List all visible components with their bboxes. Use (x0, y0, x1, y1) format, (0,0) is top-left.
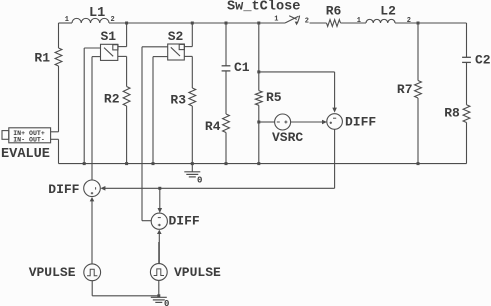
svg-text:2: 2 (305, 17, 309, 25)
svg-text:S1: S1 (100, 29, 116, 44)
svg-text:Sw_tClose: Sw_tClose (227, 0, 300, 15)
svg-text:R3: R3 (170, 92, 186, 107)
svg-text:DIFF: DIFF (48, 182, 79, 197)
svg-text:R7: R7 (397, 82, 413, 97)
svg-text:1: 1 (65, 16, 69, 24)
svg-text:0: 0 (164, 299, 169, 306)
svg-text:R1: R1 (34, 51, 50, 66)
svg-text:1: 1 (357, 17, 361, 25)
svg-text:S2: S2 (168, 29, 184, 44)
svg-text:1: 1 (274, 16, 278, 24)
svg-text:R2: R2 (104, 92, 120, 107)
svg-text:DIFF: DIFF (345, 115, 376, 130)
svg-text:0: 0 (197, 176, 202, 186)
svg-text:L1: L1 (89, 6, 105, 21)
svg-text:EVALUE: EVALUE (1, 147, 50, 162)
svg-text:R8: R8 (444, 106, 460, 121)
svg-text:R4: R4 (205, 119, 221, 134)
svg-text:C1: C1 (234, 60, 250, 75)
svg-text:R5: R5 (266, 90, 282, 105)
svg-text:DIFF: DIFF (169, 214, 200, 229)
svg-text:2: 2 (111, 16, 115, 24)
svg-text:VPULSE: VPULSE (29, 265, 76, 280)
svg-text:IN- OUT-: IN- OUT- (13, 136, 45, 143)
svg-text:L2: L2 (380, 4, 396, 19)
svg-text:2: 2 (407, 17, 411, 25)
svg-text:VSRC: VSRC (272, 130, 303, 145)
svg-text:C2: C2 (475, 53, 491, 68)
svg-text:VPULSE: VPULSE (174, 265, 221, 280)
svg-text:R6: R6 (326, 4, 342, 19)
